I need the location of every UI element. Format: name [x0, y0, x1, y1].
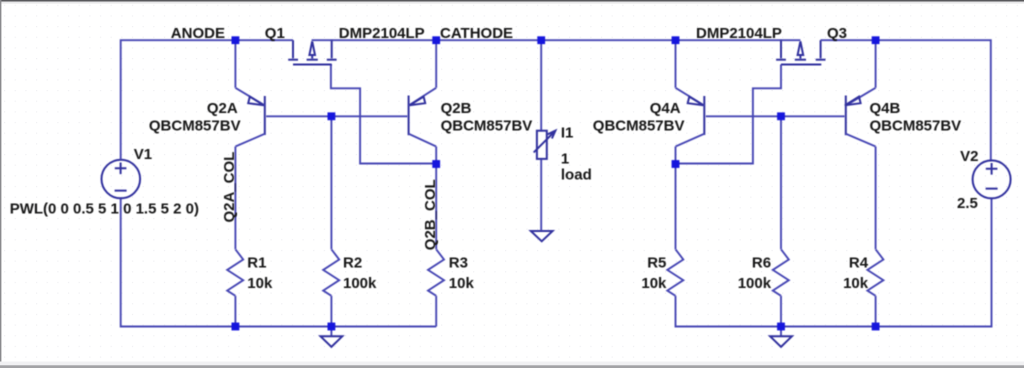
junction Q4A-Q4B base bus	[777, 112, 785, 120]
current source I1 (load)	[534, 131, 556, 159]
wire Q2A collector to R1 top	[234, 147, 236, 250]
resistor R2	[323, 249, 339, 295]
WIRES-LEFT	[121, 40, 801, 326]
junction Q4B emitter	[872, 36, 880, 44]
ground below R2	[321, 327, 343, 347]
svg-text:V2: V2	[960, 148, 978, 165]
wire I1 bottom to ground	[540, 159, 542, 231]
wire top rail right + V2 top	[821, 40, 991, 161]
wire I1 top pin	[540, 40, 542, 131]
wire top rail middle (ANODE to Q3 source side)	[312, 39, 801, 41]
wire Q4B collector to R4 top	[875, 147, 877, 250]
transistor Q2A (PNP QBCM857BV)	[235, 88, 264, 147]
svg-text:Q2B_COL: Q2B_COL	[422, 179, 439, 250]
junction R1 bottom	[232, 323, 240, 331]
resistor R4	[867, 249, 883, 295]
svg-text:R1: R1	[247, 254, 266, 271]
svg-text:QBCM857BV: QBCM857BV	[593, 118, 685, 135]
wire Q4A collector to R5 top	[675, 147, 677, 250]
svg-text:100k: 100k	[738, 275, 772, 292]
svg-text:PWL(0 0 0.5 5 1 0 1.5 5 2 0): PWL(0 0 0.5 5 1 0 1.5 5 2 0)	[10, 200, 199, 217]
wire R4 bottom pin	[875, 296, 877, 327]
svg-text:Q2A_COL: Q2A_COL	[221, 152, 238, 223]
wire V2 bottom + bottom rail right section + R5 bottom pin	[676, 198, 992, 326]
svg-text:100k: 100k	[343, 275, 377, 292]
svg-text:Q4B: Q4B	[870, 100, 901, 117]
svg-text:R2: R2	[343, 254, 362, 271]
wire R6 bottom pin	[780, 296, 782, 327]
node CATHODE junction	[432, 36, 440, 44]
junction Q4A emitter	[672, 36, 680, 44]
transistor Q4B (PNP QBCM857BV)	[845, 88, 876, 147]
junction Q2B collector / Q1 gate	[432, 160, 440, 168]
wire base junction to R6 top	[780, 116, 782, 249]
wire R2 bottom pin	[330, 296, 332, 327]
transistor Q3 (PMOS DMP2104LP)	[776, 40, 825, 64]
wire Q2B emitter pin	[435, 40, 437, 88]
wire Q2B collector to R3 top	[435, 147, 437, 250]
wire base junction to R2 top	[330, 116, 332, 249]
voltage source V1	[102, 160, 141, 199]
wire Q2A emitter pin	[234, 40, 236, 88]
svg-text:DMP2104LP: DMP2104LP	[339, 25, 425, 42]
wire base bus Q4A-Q4B	[706, 115, 845, 117]
wire Q3 gate to Q4A collector node	[676, 65, 782, 164]
wire Q4A emitter pin	[675, 40, 677, 88]
ground below I1	[531, 231, 553, 241]
resistor R5	[667, 249, 683, 295]
transistor Q1 (PMOS DMP2104LP)	[288, 40, 336, 64]
svg-text:DMP2104LP: DMP2104LP	[696, 25, 782, 42]
svg-text:QBCM857BV: QBCM857BV	[870, 118, 962, 135]
svg-text:1: 1	[561, 150, 569, 167]
svg-text:R6: R6	[752, 254, 771, 271]
wire R1 bottom pin	[234, 296, 236, 327]
junction I1 top	[537, 36, 545, 44]
voltage source V2	[973, 160, 1011, 198]
svg-text:CATHODE: CATHODE	[440, 25, 513, 42]
svg-text:V1: V1	[134, 146, 152, 163]
wire Q1 gate to Q2B collector node	[331, 65, 436, 164]
svg-text:QBCM857BV: QBCM857BV	[149, 118, 241, 135]
svg-text:load: load	[561, 167, 592, 184]
resistor R3	[428, 249, 444, 295]
junction R6 bottom / ground	[777, 323, 785, 331]
junction Q4A collector / Q3 gate	[672, 160, 680, 168]
svg-text:10k: 10k	[449, 275, 475, 292]
svg-text:10k: 10k	[843, 275, 869, 292]
svg-text:Q4A: Q4A	[650, 100, 681, 117]
resistor R6	[773, 249, 789, 295]
junction R2 bottom / ground	[328, 323, 336, 331]
svg-text:Q3: Q3	[827, 25, 847, 42]
svg-text:10k: 10k	[641, 275, 667, 292]
svg-text:R4: R4	[849, 254, 869, 271]
wire R3 bottom pin	[435, 296, 437, 327]
resistor R1	[227, 249, 243, 295]
svg-text:2.5: 2.5	[957, 195, 978, 212]
transistor Q2B (PNP QBCM857BV)	[409, 88, 437, 147]
transistor Q4A (PNP QBCM857BV)	[676, 88, 705, 147]
wire Q4B emitter pin	[875, 40, 877, 88]
svg-text:I1: I1	[561, 124, 574, 141]
svg-text:Q2B: Q2B	[441, 100, 472, 117]
svg-text:ANODE: ANODE	[171, 25, 225, 42]
svg-text:Q2A: Q2A	[207, 100, 238, 117]
wire base bus Q2A-Q2B	[266, 115, 408, 117]
junction Q2A-Q2B base bus	[328, 112, 336, 120]
svg-text:QBCM857BV: QBCM857BV	[441, 118, 533, 135]
junction R4 bottom	[872, 323, 880, 331]
wire top rail left + left rail to V1	[121, 40, 293, 159]
svg-text:Q1: Q1	[265, 25, 285, 42]
svg-text:R3: R3	[449, 254, 468, 271]
node ANODE junction	[232, 36, 240, 44]
wire V1 bottom + bottom rail left section	[121, 198, 437, 326]
ground below R6	[770, 327, 792, 347]
svg-text:R5: R5	[647, 254, 666, 271]
WIRES-RIGHT	[676, 40, 992, 326]
svg-text:10k: 10k	[247, 275, 273, 292]
